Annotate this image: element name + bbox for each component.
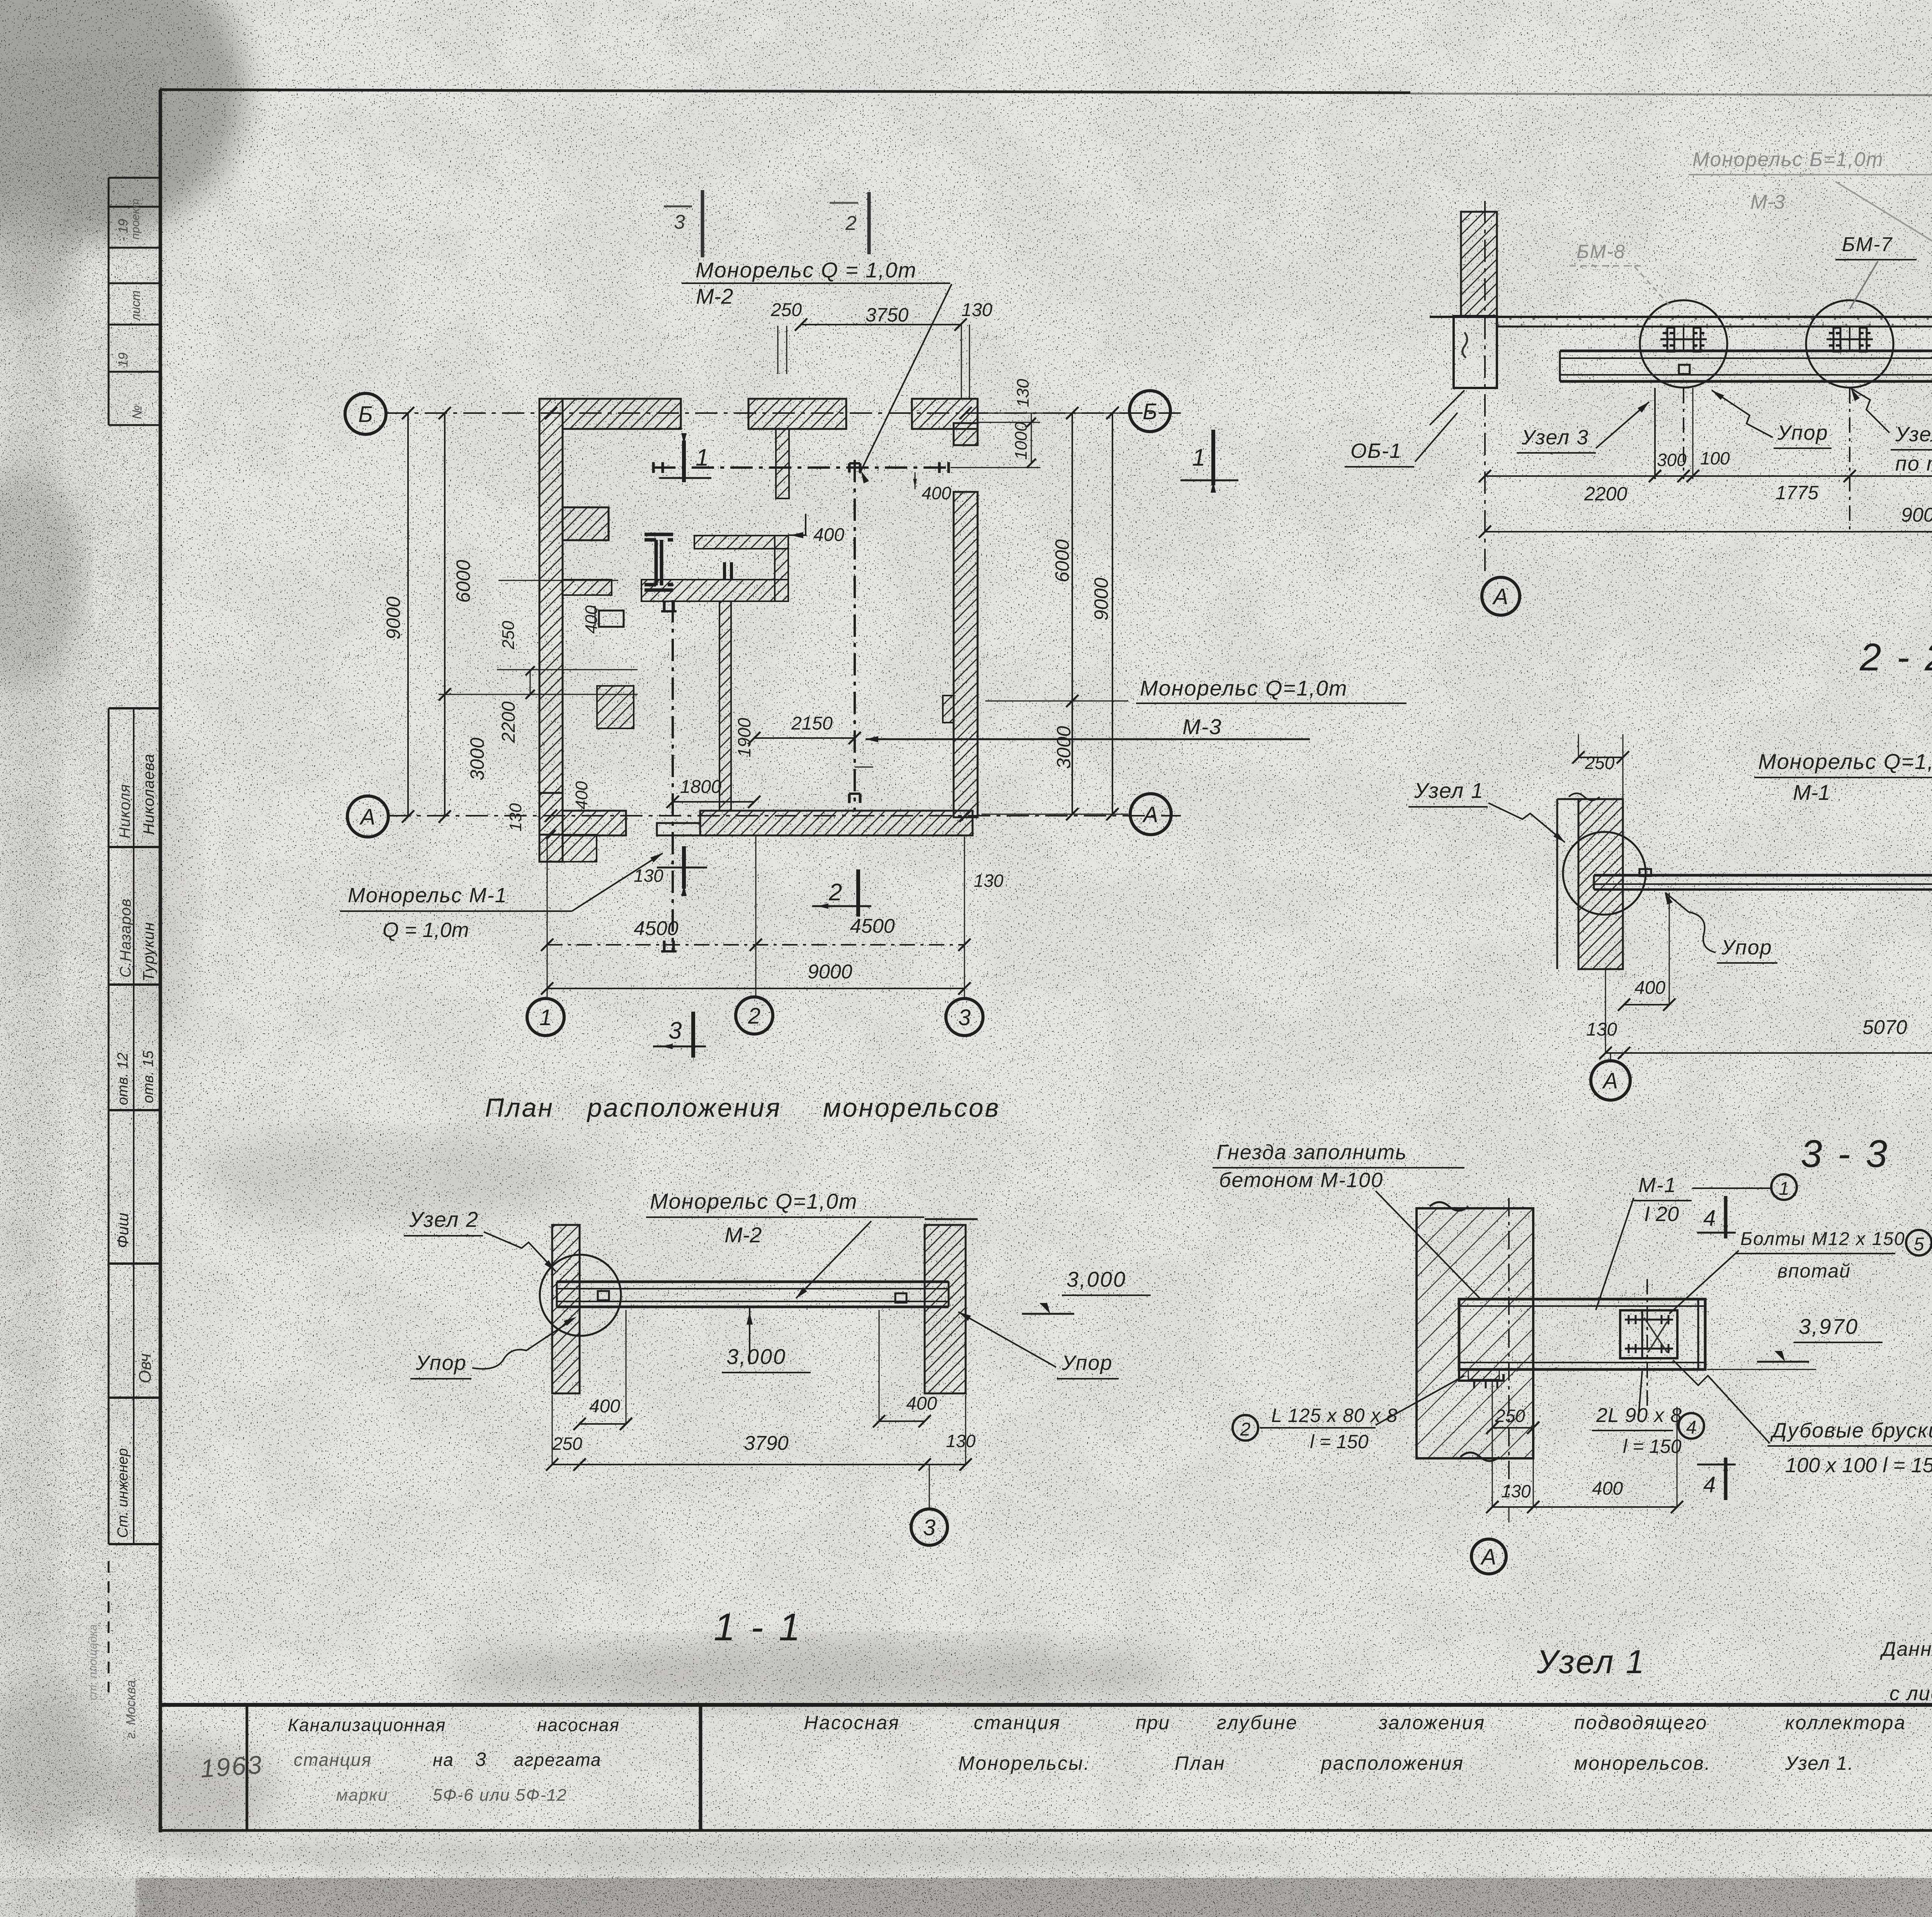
svg-text:9000: 9000 <box>383 597 404 640</box>
svg-text:400: 400 <box>572 781 591 810</box>
svg-text:А: А <box>1480 1544 1497 1570</box>
svg-text:2: 2 <box>748 1004 760 1029</box>
svg-text:Узел 1: Узел 1 <box>1414 778 1484 803</box>
svg-text:1900: 1900 <box>734 718 754 757</box>
svg-text:3000: 3000 <box>1053 726 1075 769</box>
svg-text:монорельсов.: монорельсов. <box>1574 1752 1711 1774</box>
svg-text:Б: Б <box>358 402 373 427</box>
svg-text:Монорельс Q=1,0т: Монорельс Q=1,0т <box>1140 676 1348 700</box>
svg-text:4: 4 <box>1686 1417 1697 1438</box>
svg-text:бетоном М-100: бетоном М-100 <box>1219 1169 1383 1192</box>
svg-text:l = 150: l = 150 <box>1623 1436 1682 1457</box>
svg-text:1: 1 <box>1192 444 1205 471</box>
svg-text:Монорельс Б=1,0т: Монорельс Б=1,0т <box>1692 148 1884 171</box>
svg-text:Турукин: Турукин <box>140 922 157 981</box>
svg-text:Узел 1.: Узел 1. <box>1785 1752 1854 1774</box>
svg-text:План: План <box>485 1093 554 1123</box>
svg-text:130: 130 <box>961 300 992 320</box>
svg-text:2 - 2: 2 - 2 <box>1859 636 1932 679</box>
svg-text:130: 130 <box>1014 379 1032 407</box>
svg-text:г. Москва.: г. Москва. <box>124 1677 138 1739</box>
svg-text:I 20: I 20 <box>1644 1203 1679 1226</box>
svg-text:Насосная: Насосная <box>804 1712 900 1733</box>
svg-text:400: 400 <box>589 1396 620 1417</box>
svg-text:Ст. инженер: Ст. инженер <box>115 1448 131 1538</box>
svg-text:1000: 1000 <box>1012 422 1031 460</box>
svg-text:проект: проект <box>129 199 142 240</box>
svg-text:монорельсов: монорельсов <box>823 1093 1000 1123</box>
svg-text:400: 400 <box>1592 1478 1623 1499</box>
svg-text:2200: 2200 <box>498 701 519 743</box>
svg-text:250: 250 <box>770 300 802 320</box>
svg-text:с листом: с листом <box>1889 1682 1932 1705</box>
svg-text:1: 1 <box>696 444 709 471</box>
svg-text:отв. 12: отв. 12 <box>115 1053 131 1105</box>
svg-text:№: № <box>130 405 145 419</box>
svg-text:Узел 3: Узел 3 <box>1521 426 1589 449</box>
svg-text:4: 4 <box>1703 1472 1716 1497</box>
svg-text:расположения: расположения <box>1320 1752 1464 1774</box>
svg-text:коллектора: коллектора <box>1785 1712 1906 1733</box>
svg-text:впотай: впотай <box>1777 1260 1851 1282</box>
svg-text:3: 3 <box>475 1749 486 1770</box>
svg-text:станция: станция <box>294 1750 372 1770</box>
svg-text:400: 400 <box>906 1393 937 1414</box>
svg-text:250: 250 <box>1585 753 1615 773</box>
svg-text:на: на <box>433 1750 454 1770</box>
svg-text:лист: лист <box>129 291 143 322</box>
svg-text:Узел 2: Узел 2 <box>409 1207 479 1232</box>
svg-text:300: 300 <box>1657 450 1687 470</box>
svg-text:Монорельс Q=1,0т: Монорельс Q=1,0т <box>650 1189 858 1213</box>
svg-text:130: 130 <box>946 1431 976 1451</box>
svg-text:130: 130 <box>1586 1019 1617 1040</box>
svg-text:3000: 3000 <box>466 738 488 781</box>
svg-text:Болты М12 х 150: Болты М12 х 150 <box>1740 1229 1905 1249</box>
svg-text:Канализационная: Канализационная <box>288 1715 446 1735</box>
svg-text:Гнезда заполнить: Гнезда заполнить <box>1216 1141 1407 1164</box>
svg-text:Монорельс Q = 1,0т: Монорельс Q = 1,0т <box>696 258 917 282</box>
svg-text:заложения: заложения <box>1378 1712 1485 1733</box>
svg-text:3: 3 <box>958 1005 971 1030</box>
svg-text:2: 2 <box>1240 1419 1251 1440</box>
svg-text:4500: 4500 <box>850 915 895 937</box>
svg-text:С.Назаров: С.Назаров <box>117 898 134 978</box>
svg-text:3790: 3790 <box>744 1432 789 1454</box>
svg-text:3,970: 3,970 <box>1799 1314 1859 1339</box>
svg-text:Узел 1: Узел 1 <box>1536 1643 1646 1681</box>
svg-text:2: 2 <box>845 212 857 235</box>
svg-text:расположения: расположения <box>587 1093 781 1123</box>
svg-text:Монорельс М-1: Монорельс М-1 <box>348 884 507 907</box>
svg-text:3: 3 <box>923 1515 935 1540</box>
svg-text:Монорельсы.: Монорельсы. <box>958 1752 1090 1774</box>
svg-text:А: А <box>359 805 376 830</box>
svg-text:9000: 9000 <box>808 961 852 983</box>
svg-text:1: 1 <box>1779 1179 1789 1199</box>
svg-text:по типу: по типу <box>1895 452 1932 475</box>
svg-text:3750: 3750 <box>866 304 908 326</box>
svg-text:3,000: 3,000 <box>726 1344 786 1369</box>
svg-text:1 - 1: 1 - 1 <box>714 1606 803 1649</box>
svg-text:4500: 4500 <box>634 917 679 940</box>
svg-text:глубине: глубине <box>1217 1712 1298 1733</box>
svg-text:- 19: - 19 <box>116 219 131 242</box>
svg-text:Дубовые бруски.: Дубовые бруски. <box>1770 1419 1932 1442</box>
svg-text:3: 3 <box>668 1017 682 1044</box>
svg-text:Упор: Упор <box>1777 421 1828 444</box>
svg-text:М-1: М-1 <box>1638 1174 1677 1197</box>
svg-text:400: 400 <box>813 525 844 545</box>
svg-text:Упор: Упор <box>415 1351 467 1374</box>
svg-text:9000: 9000 <box>1090 578 1112 621</box>
svg-text:БМ-8: БМ-8 <box>1577 241 1626 262</box>
svg-text:отв. 15: отв. 15 <box>140 1050 156 1103</box>
svg-text:130: 130 <box>506 803 525 832</box>
svg-text:марки: марки <box>336 1786 388 1805</box>
svg-text:6000: 6000 <box>452 560 474 603</box>
svg-text:l = 150: l = 150 <box>1310 1431 1369 1453</box>
svg-text:А: А <box>1142 802 1158 827</box>
svg-text:станция: станция <box>974 1712 1061 1733</box>
svg-text:А: А <box>1492 584 1509 609</box>
svg-text:Б: Б <box>1143 399 1157 424</box>
svg-text:М-2: М-2 <box>696 284 733 308</box>
svg-text:3 - 3: 3 - 3 <box>1801 1132 1889 1175</box>
svg-text:400: 400 <box>1634 978 1665 998</box>
svg-text:250: 250 <box>499 621 518 650</box>
svg-text:130: 130 <box>1501 1481 1531 1501</box>
svg-text:19: 19 <box>116 352 131 367</box>
svg-text:М-2: М-2 <box>724 1223 762 1247</box>
svg-text:100 х 100 l = 150: 100 х 100 l = 150 <box>1785 1454 1932 1477</box>
svg-text:Николаева: Николаева <box>140 754 157 835</box>
svg-text:Николя: Николя <box>116 784 133 839</box>
svg-text:2150: 2150 <box>791 713 833 734</box>
svg-text:2200: 2200 <box>1584 483 1627 505</box>
svg-text:М-3: М-3 <box>1182 714 1222 739</box>
svg-text:Узел 3: Узел 3 <box>1895 423 1932 446</box>
svg-text:250: 250 <box>1495 1406 1525 1426</box>
svg-text:5070: 5070 <box>1862 1016 1907 1039</box>
svg-text:М-1: М-1 <box>1793 780 1830 805</box>
svg-text:5: 5 <box>1914 1234 1924 1255</box>
svg-text:М-3: М-3 <box>1750 191 1785 213</box>
svg-text:Q = 1,0т: Q = 1,0т <box>383 919 469 942</box>
svg-text:подводящего: подводящего <box>1574 1712 1708 1733</box>
svg-text:Монорельс Q=1,0т: Монорельс Q=1,0т <box>1758 749 1932 774</box>
svg-text:насосная: насосная <box>537 1715 620 1735</box>
svg-text:Данный: Данный <box>1880 1638 1932 1660</box>
svg-text:Упор: Упор <box>1721 936 1772 959</box>
svg-text:1963: 1963 <box>199 1750 264 1783</box>
svg-text:5Ф-6 или 5Ф-12: 5Ф-6 или 5Ф-12 <box>433 1786 567 1805</box>
svg-text:3,000: 3,000 <box>1066 1267 1126 1291</box>
svg-text:400: 400 <box>922 483 951 503</box>
svg-text:Овч: Овч <box>136 1354 155 1384</box>
svg-text:агрегата: агрегата <box>514 1750 602 1770</box>
svg-text:250: 250 <box>552 1434 582 1454</box>
svg-text:ОБ-1: ОБ-1 <box>1350 439 1402 463</box>
svg-text:1800: 1800 <box>680 777 721 797</box>
svg-text:ст. площадка: ст. площадка <box>87 1624 99 1700</box>
svg-text:400: 400 <box>582 605 601 634</box>
svg-text:2: 2 <box>828 879 842 906</box>
svg-text:9000: 9000 <box>1901 504 1932 526</box>
svg-text:6000: 6000 <box>1051 539 1073 582</box>
svg-text:Упор: Упор <box>1061 1351 1113 1374</box>
svg-text:3: 3 <box>674 211 685 233</box>
svg-text:А: А <box>1602 1068 1618 1094</box>
svg-text:при: при <box>1136 1712 1170 1733</box>
svg-text:130: 130 <box>974 871 1003 891</box>
svg-text:Фиш: Фиш <box>114 1213 132 1248</box>
svg-text:БМ-7: БМ-7 <box>1842 233 1893 256</box>
svg-text:1: 1 <box>539 1005 552 1030</box>
svg-text:План: План <box>1175 1752 1226 1774</box>
svg-text:4: 4 <box>1703 1206 1716 1231</box>
svg-text:100: 100 <box>1700 448 1730 468</box>
svg-text:1775: 1775 <box>1776 482 1818 503</box>
